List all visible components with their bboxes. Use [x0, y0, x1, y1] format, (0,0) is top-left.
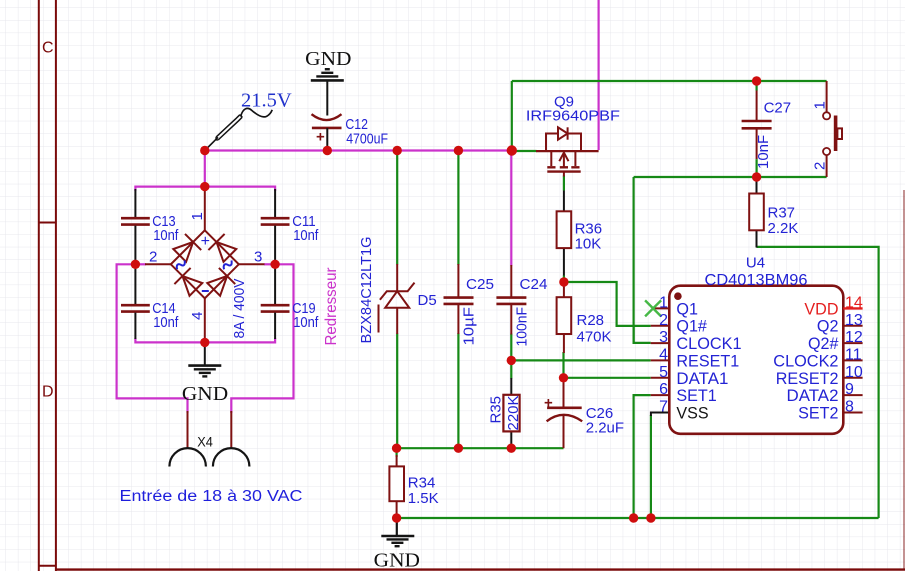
svg-text:4: 4	[189, 312, 206, 320]
U4 pin 11 stub	[843, 359, 862, 361]
svg-text:RESET1: RESET1	[676, 351, 739, 370]
U4 pin 14 stub (highlighted)	[843, 307, 862, 309]
power symbol GND top	[305, 49, 351, 80]
resistor R35 220K	[488, 395, 522, 432]
rectifier bridge B1 diamond outline	[145, 190, 265, 339]
wire magenta bridge left node stub	[134, 260, 136, 268]
svg-text:2: 2	[659, 312, 668, 329]
wire green R36 to junction	[563, 276, 565, 283]
junction R36/R28	[559, 277, 568, 286]
wire magenta bridge bottom loop	[135, 338, 275, 342]
wire green DATA1 pin 5 to C26 node	[564, 377, 651, 379]
bridge ac mark right ~	[224, 260, 232, 269]
pin 4 lead	[204, 298, 206, 339]
bridge diode bottom-left	[174, 268, 202, 296]
svg-text:2: 2	[812, 162, 829, 170]
frame bottom border	[56, 568, 905, 570]
U4 pin 5 stub	[651, 377, 670, 379]
wire black R35 bottom lead	[510, 428, 512, 444]
capacitor C24 100nF	[496, 265, 547, 347]
junction bus at Q9	[507, 145, 517, 155]
pin 2 lead	[145, 263, 171, 265]
wire green bus to Q9 source	[512, 150, 537, 152]
svg-text:21.5V: 21.5V	[241, 90, 292, 112]
svg-text:10nf: 10nf	[293, 227, 319, 244]
power symbol GND bottom	[374, 518, 420, 571]
junction bus at D5	[393, 146, 402, 155]
svg-text:8A / 400V: 8A / 400V	[231, 279, 248, 339]
capacitor C13 10nf	[121, 189, 179, 261]
svg-text:CLOCK1: CLOCK1	[676, 334, 741, 353]
junction C27 top	[752, 76, 761, 85]
mosfet Q9 IRF9640PBF	[526, 94, 620, 177]
wire green ground rail bottom	[397, 517, 879, 519]
svg-text:Q1#: Q1#	[676, 317, 707, 336]
wire magenta bridge right node stub	[274, 260, 276, 268]
U4 pin 4 stub	[651, 359, 670, 361]
bridge ac mark left ~	[177, 260, 185, 269]
sheet frame left outer line	[38, 0, 40, 571]
wire magenta bus drop to bridge	[204, 151, 206, 187]
svg-text:GND: GND	[374, 551, 420, 571]
resistor R34 1.5K	[389, 455, 438, 518]
capacitor C19 10nf	[261, 268, 319, 339]
svg-text:+: +	[316, 129, 325, 146]
svg-text:2.2K: 2.2K	[768, 220, 799, 237]
svg-text:6: 6	[659, 381, 668, 398]
svg-text:C25: C25	[466, 276, 494, 293]
junction bus at probe	[200, 146, 209, 155]
wire green top rail to button pin 1	[512, 80, 827, 82]
svg-text:10nF: 10nF	[755, 135, 772, 169]
U4 pin 9 stub	[843, 394, 862, 396]
svg-text:12: 12	[845, 329, 863, 346]
svg-text:470K: 470K	[577, 329, 612, 346]
push button SW1	[812, 81, 843, 177]
svg-text:10: 10	[845, 364, 863, 381]
wire black R37 bottom lead	[756, 230, 758, 247]
resistor R36 10K	[557, 211, 603, 252]
svg-text:5: 5	[659, 364, 668, 381]
svg-text:7: 7	[659, 399, 668, 416]
wire green RESET1 pin 4 to C24/R35 node	[511, 359, 650, 361]
junction rail C25	[454, 444, 463, 453]
svg-text:Q1: Q1	[676, 299, 698, 318]
svg-text:Q2: Q2	[817, 317, 839, 336]
svg-text:DATA2: DATA2	[787, 386, 839, 405]
bridge polarity mark -	[202, 290, 209, 292]
svg-text:8: 8	[845, 399, 854, 416]
wire magenta outer loop left to X4 pin 1	[117, 264, 188, 413]
wire green Q9 gate link upper	[563, 176, 565, 191]
U4 pin 3 stub	[651, 342, 670, 344]
wire green right side riser R37 to ground rail	[757, 247, 879, 518]
wire magenta Q9 drain to top edge	[597, 0, 599, 150]
wire black C24/R35 link	[510, 378, 512, 396]
svg-text:+: +	[544, 395, 553, 412]
junction ground rail VSS	[646, 513, 655, 522]
wire green R28 bottom to C26 node	[562, 352, 564, 378]
svg-text:2.2uF: 2.2uF	[586, 420, 624, 437]
capacitor C14 10nf	[121, 268, 179, 339]
svg-text:U4: U4	[746, 255, 765, 272]
U4 pin 1 stub	[653, 307, 670, 309]
wire magenta main bus 21.5V net	[205, 149, 512, 151]
svg-text:1: 1	[812, 101, 829, 109]
svg-text:3: 3	[659, 329, 668, 346]
svg-text:C27: C27	[764, 100, 792, 117]
capacitor C12 4700uF polarized	[312, 80, 389, 150]
pin 1 lead	[204, 190, 206, 230]
svg-text:C: C	[42, 40, 54, 57]
probe 21.5V	[205, 90, 292, 151]
svg-text:RESET2: RESET2	[776, 369, 839, 388]
svg-text:100nF: 100nF	[513, 307, 530, 347]
svg-text:VDD: VDD	[804, 299, 838, 318]
junction rail R35	[507, 444, 516, 453]
junction C27 bottom	[752, 172, 761, 181]
svg-text:Redresseur: Redresseur	[323, 267, 340, 346]
junction bridge bottom	[200, 338, 209, 347]
wire green mid rail to button pin 2	[634, 176, 827, 178]
wire green SET1 pin 6 down to ground rail	[634, 395, 651, 518]
pin 3 lead	[239, 263, 265, 265]
wire magenta bridge top loop	[135, 187, 275, 191]
svg-text:10nf: 10nf	[153, 227, 179, 244]
svg-text:SET2: SET2	[798, 404, 838, 423]
junction C26 top	[559, 373, 568, 382]
capacitor C27 10nF	[742, 81, 792, 177]
svg-text:4700uF: 4700uF	[346, 130, 388, 147]
svg-text:Q2#: Q2#	[808, 334, 839, 353]
wire green mid rail down to CLOCK1	[634, 177, 651, 343]
frame right border (faint)	[903, 190, 905, 569]
svg-text:R28: R28	[577, 312, 605, 329]
svg-text:10nf: 10nf	[153, 314, 179, 331]
bridge diode top-right	[208, 234, 236, 262]
capacitor C26 2.2uF polarized	[544, 378, 624, 448]
zener diode D5 BZX84C12LT1G	[358, 237, 437, 344]
U4 pin 8 stub	[843, 412, 862, 414]
resistor R37 2.2K	[749, 177, 798, 237]
wire green C24 bottom to R35 top	[510, 334, 512, 379]
power symbol GND bridge	[182, 342, 228, 405]
wire green R36 junction to Q1# pin 2	[564, 282, 651, 326]
U4 pin 10 stub	[843, 377, 862, 379]
wire magenta C24 feed from bus	[510, 151, 512, 266]
svg-text:R35: R35	[488, 396, 505, 424]
U4 pin 12 stub	[843, 342, 862, 344]
junction bus at C25	[454, 146, 463, 155]
wire magenta outer loop right to X4 pin 2	[231, 264, 293, 413]
wire black VSS pin 7 elbow	[651, 413, 669, 417]
svg-text:14: 14	[845, 295, 863, 312]
junction bridge left	[131, 260, 140, 269]
svg-text:220K: 220K	[505, 395, 522, 430]
svg-text:1: 1	[659, 295, 668, 312]
wire green C25 line from bus	[457, 151, 459, 266]
capacitor C25 10uF	[444, 264, 495, 346]
svg-text:DATA1: DATA1	[676, 369, 728, 388]
svg-text:Entrée de 18 à 30 VAC: Entrée de 18 à 30 VAC	[120, 488, 303, 505]
sheet frame left inner line	[55, 0, 57, 571]
junction bridge right	[270, 260, 279, 269]
svg-text:SET1: SET1	[676, 386, 716, 405]
wire green VSS pin 7 down to ground rail	[650, 415, 652, 518]
svg-text:D5: D5	[418, 292, 437, 309]
wire green Q1# branch down to CLOCK1 pin 3	[632, 326, 634, 343]
svg-text:CD4013BM96: CD4013BM96	[705, 272, 808, 289]
connector X4	[169, 411, 249, 467]
wire green D5 line from bus	[396, 151, 398, 265]
frame row divider C/D	[39, 222, 56, 224]
svg-text:9: 9	[845, 381, 854, 398]
svg-text:VSS: VSS	[676, 404, 708, 423]
junction rail D5	[392, 444, 401, 453]
junction bus at C12	[323, 146, 332, 155]
wire green C25 bottom to rail	[457, 333, 459, 448]
svg-text:11: 11	[845, 347, 862, 364]
svg-text:1.5K: 1.5K	[408, 490, 439, 507]
svg-text:2: 2	[149, 249, 157, 266]
svg-text:CLOCK2: CLOCK2	[773, 351, 838, 370]
bridge diode bottom-right	[207, 268, 235, 296]
svg-text:1: 1	[189, 212, 206, 220]
svg-text:C24: C24	[520, 276, 548, 293]
svg-text:BZX84C12LT1G: BZX84C12LT1G	[358, 237, 375, 344]
svg-text:GND: GND	[305, 49, 351, 70]
bridge diode top-left	[173, 234, 201, 262]
junction C24/R35	[507, 356, 516, 365]
svg-text:4: 4	[659, 347, 668, 364]
IC U4 CD4013BM96 body	[669, 255, 843, 434]
svg-text:3: 3	[254, 249, 262, 266]
svg-text:D: D	[42, 384, 54, 401]
svg-text:IRF9640PBF: IRF9640PBF	[526, 108, 620, 125]
U4 pin 2 stub	[651, 325, 670, 327]
svg-text:13: 13	[845, 312, 863, 329]
junction ground rail SET1	[629, 513, 638, 522]
wire green zener rail upper	[397, 447, 564, 449]
wire green bus up to top rail	[511, 81, 513, 151]
svg-text:R37: R37	[768, 205, 796, 222]
wire green D5 bottom to rail	[396, 334, 398, 449]
svg-text:10K: 10K	[575, 236, 602, 253]
svg-text:GND: GND	[182, 384, 228, 405]
frame row divider bottom	[39, 565, 56, 567]
svg-text:10µF: 10µF	[460, 307, 477, 346]
no-connect X on pin 1	[645, 300, 661, 316]
junction bridge top	[200, 182, 209, 191]
svg-text:X4: X4	[197, 434, 213, 450]
svg-text:+: +	[201, 233, 210, 250]
wire green R35 to rail	[510, 444, 512, 448]
resistor R28 470K	[557, 282, 612, 353]
capacitor C11 10nf	[261, 189, 319, 261]
wire black Q9 gate to R36	[563, 191, 565, 212]
U4 pin 13 stub	[843, 325, 862, 327]
junction ground rail R34	[392, 513, 401, 522]
wire black R36 bottom lead	[563, 248, 565, 276]
svg-text:R34: R34	[408, 475, 436, 492]
wire green R34 top from rail	[396, 448, 398, 457]
U4 pin 6 stub	[651, 394, 670, 396]
svg-text:10nf: 10nf	[293, 314, 319, 331]
